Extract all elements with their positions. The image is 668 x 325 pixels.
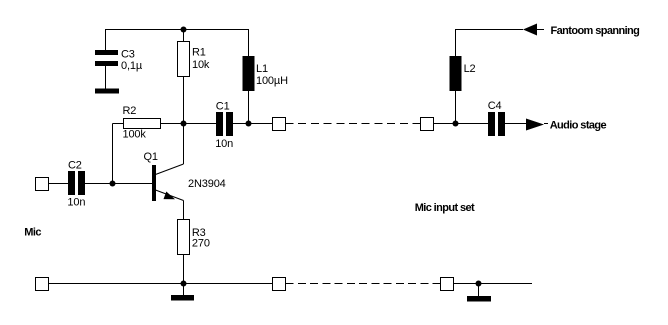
wire L1 bottom	[248, 91, 250, 124]
svg-text:L1: L1	[256, 63, 268, 75]
svg-text:Audio stage: Audio stage	[550, 119, 607, 131]
junction node R1 bottom / R2 right	[181, 121, 187, 127]
wire C4 to audio arrow	[505, 123, 526, 125]
wire C3 bottom lead	[105, 66, 107, 89]
resistor R2	[124, 119, 161, 129]
connector pad signal cable right	[421, 118, 434, 131]
svg-text:270: 270	[192, 237, 210, 249]
wire mid rail left segment	[113, 123, 124, 125]
transistor Q1 emitter arrowhead	[164, 192, 176, 200]
wire audio arrow tail	[544, 123, 548, 125]
svg-text:0,1µ: 0,1µ	[121, 60, 143, 72]
capacitor C4 plate 2	[498, 112, 505, 136]
svg-text:R2: R2	[123, 105, 137, 117]
svg-text:10n: 10n	[67, 197, 85, 209]
connector pad ground cable left	[273, 278, 286, 291]
junction node L2 bottom	[453, 121, 459, 127]
svg-text:C3: C3	[121, 49, 135, 61]
svg-text:C4: C4	[488, 100, 502, 112]
transistor Q1 emitter lead	[156, 190, 184, 201]
resistor R1	[178, 42, 190, 77]
capacitor C1 plate 2	[226, 112, 233, 136]
wire R2 right to R1 node	[161, 123, 217, 125]
wire C1 right to connector	[233, 123, 273, 125]
resistor R3	[178, 220, 190, 255]
wire C2 to base node	[85, 183, 152, 185]
junction node R3 ground	[181, 281, 187, 287]
connector pad signal cable left	[273, 118, 286, 131]
svg-text:Fantoom spanning: Fantoom spanning	[551, 25, 640, 37]
connector pad ground cable right	[441, 278, 454, 291]
svg-text:10k: 10k	[192, 59, 210, 71]
capacitor C4 plate 1	[488, 112, 495, 136]
svg-text:C1: C1	[216, 101, 230, 113]
wire R1 bottom to collector	[183, 77, 185, 165]
wire fantoom arrow tail	[537, 29, 544, 31]
wire mid rail dashed cable segment	[286, 123, 421, 125]
svg-text:L2: L2	[464, 63, 476, 75]
svg-text:Q1: Q1	[144, 151, 158, 163]
svg-text:C2: C2	[68, 160, 82, 172]
svg-text:2N3904: 2N3904	[188, 178, 226, 190]
transistor Q1 base bar	[152, 165, 156, 201]
arrow audio stage output	[526, 119, 544, 131]
svg-text:100k: 100k	[123, 129, 147, 141]
junction node R1 top	[181, 27, 187, 33]
capacitor C2 plate 2	[78, 171, 85, 195]
capacitor C1 plate 1	[216, 112, 223, 136]
ground symbol under R3	[171, 295, 194, 301]
capacitor C2 plate 1	[68, 171, 75, 195]
junction node cable shield ground	[476, 281, 482, 287]
wire bottom rail right	[454, 283, 533, 285]
svg-text:Mic: Mic	[24, 226, 41, 238]
svg-text:10n: 10n	[215, 138, 233, 150]
ground symbol bottom right	[467, 296, 491, 302]
wire connector to C4	[434, 123, 489, 125]
connector pad mic hot	[36, 178, 49, 191]
svg-text:100µH: 100µH	[256, 75, 288, 87]
wire top rail	[106, 30, 249, 57]
svg-text:Mic input set: Mic input set	[415, 202, 475, 214]
svg-text:R1: R1	[192, 46, 206, 58]
wire R3 bottom	[183, 255, 185, 284]
wire mic hot lead	[49, 183, 69, 185]
wire L2 top to fantoom arrow	[456, 30, 524, 57]
connector pad mic ground	[36, 278, 49, 291]
capacitor C3 plate 1	[95, 50, 118, 55]
wire L2 bottom	[455, 91, 457, 124]
inductor L2	[450, 56, 462, 91]
wire bottom rail dashed cable segment	[286, 283, 441, 285]
arrow fantoom spanning input	[523, 24, 537, 36]
junction node L1 bottom / C1 right	[246, 121, 252, 127]
wire R1 top	[183, 30, 185, 42]
ground bar under C3	[95, 89, 119, 94]
inductor L1	[243, 56, 255, 91]
wire R2 left drop to base node	[112, 124, 114, 184]
transistor Q1 collector lead	[156, 164, 184, 175]
wire bottom rail left	[49, 283, 273, 285]
capacitor C3 plate 2	[95, 61, 118, 66]
junction node Q1 base	[110, 181, 116, 187]
wire ground stub under R3	[183, 284, 185, 296]
wire emitter to R3	[183, 201, 185, 220]
wire ground stub right	[478, 284, 480, 297]
